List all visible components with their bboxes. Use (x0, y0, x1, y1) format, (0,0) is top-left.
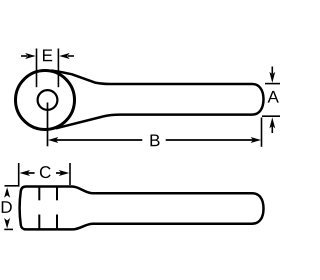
dimension B right extension line (261, 118, 263, 147)
dimension C right extension line (69, 163, 71, 185)
dimension A top arrow (269, 67, 275, 83)
label A (268, 91, 279, 103)
dimension E extension line left (36, 49, 38, 88)
label C (40, 166, 51, 178)
dimension A top extension line (265, 83, 280, 85)
dimension C right arrow (56, 170, 69, 176)
dimension B line left segment with left arrow (48, 137, 142, 143)
dimension D top arrow (4, 187, 10, 198)
label B (150, 135, 159, 147)
dimension B line right segment with right arrow (166, 137, 261, 143)
dimension E extension line right (57, 49, 59, 88)
centerline from hole center (47, 103, 49, 147)
dimension E left arrow (21, 53, 36, 59)
dimension D bottom extension line (4, 228, 13, 230)
dimension C left arrow (20, 170, 35, 176)
hole circle (top view) (38, 90, 58, 110)
dimension A bottom arrow (269, 117, 275, 133)
dimension C left extension line with corner to D top extension (5, 163, 19, 186)
head outline (side view) (20, 187, 264, 230)
label D (2, 201, 12, 213)
shank outline (top view) (51, 71, 264, 129)
dimension D bottom arrow (4, 218, 10, 229)
dimension A bottom extension line (262, 115, 280, 117)
dimension E right arrow (59, 53, 74, 59)
label E (43, 50, 52, 62)
hole hidden line right (side view) (56, 187, 58, 230)
hole hidden line left (side view) (38, 187, 40, 230)
eye circle (top view) (16, 71, 75, 130)
